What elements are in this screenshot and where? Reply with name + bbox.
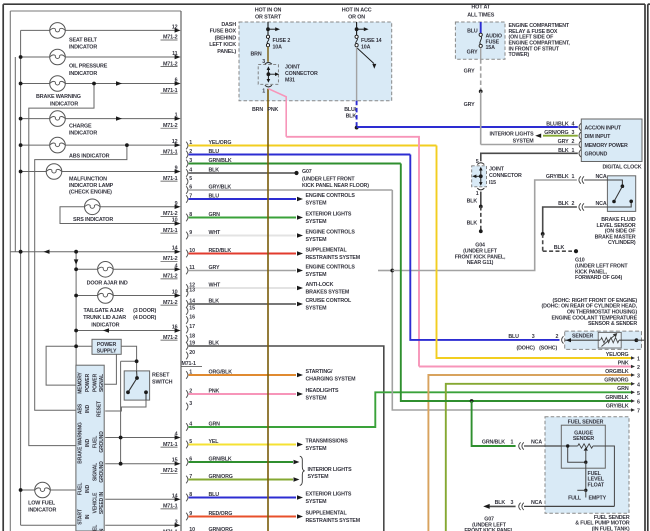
svg-text:BLU: BLU: [467, 29, 478, 35]
svg-text:9: 9: [175, 201, 178, 207]
svg-text:HOT IN ACC: HOT IN ACC: [342, 8, 372, 14]
svg-text:5: 5: [637, 391, 640, 397]
svg-text:FUEL: FUEL: [77, 483, 83, 496]
svg-text:BLK: BLK: [554, 245, 565, 251]
svg-text:IN: IN: [85, 514, 91, 519]
svg-text:HOT AT: HOT AT: [471, 4, 490, 10]
svg-text:NCA: NCA: [531, 439, 542, 445]
svg-text:LOW FUEL: LOW FUEL: [28, 501, 56, 507]
svg-text:INDICATOR: INDICATOR: [69, 131, 97, 137]
svg-text:OIL PRESSURE: OIL PRESSURE: [69, 64, 108, 70]
svg-text:STARTING/: STARTING/: [306, 369, 333, 375]
svg-text:YEL/ORG: YEL/ORG: [606, 352, 629, 358]
svg-text:SYSTEM: SYSTEM: [513, 139, 535, 145]
svg-text:10A: 10A: [273, 45, 283, 51]
svg-text:SYSTEM: SYSTEM: [306, 272, 328, 278]
svg-text:SYSTEM: SYSTEM: [308, 474, 330, 480]
svg-text:TAILGATE AJAR: TAILGATE AJAR: [84, 308, 124, 314]
svg-text:RESET: RESET: [97, 401, 103, 417]
svg-text:SYSTEM: SYSTEM: [306, 219, 328, 225]
svg-text:15A: 15A: [486, 45, 496, 51]
svg-text:SEAT BELT: SEAT BELT: [69, 37, 98, 43]
svg-text:SUPPLEMENTAL: SUPPLEMENTAL: [306, 248, 348, 254]
svg-text:TRUNK LID AJAR: TRUNK LID AJAR: [83, 315, 126, 321]
svg-text:BLU/BLK: BLU/BLK: [546, 122, 569, 128]
svg-text:FLOAT: FLOAT: [588, 482, 605, 488]
svg-text:2: 2: [556, 334, 559, 340]
svg-text:SYSTEM: SYSTEM: [306, 446, 328, 452]
svg-text:TRANSMISSIONS: TRANSMISSIONS: [306, 439, 349, 445]
svg-text:2: 2: [637, 365, 640, 371]
svg-text:HEADLIGHTS: HEADLIGHTS: [306, 388, 340, 394]
svg-text:IND: IND: [85, 484, 91, 493]
svg-text:FUSE 2: FUSE 2: [273, 38, 291, 44]
svg-text:(UNDER LEFT FRONT: (UNDER LEFT FRONT: [302, 177, 355, 183]
svg-text:4: 4: [175, 432, 178, 438]
svg-text:1: 1: [637, 357, 640, 363]
svg-text:BRN: BRN: [252, 107, 263, 113]
svg-text:1: 1: [476, 191, 479, 197]
svg-text:BRAKE WARNING: BRAKE WARNING: [77, 422, 83, 464]
svg-text:FUSE BOX: FUSE BOX: [210, 29, 237, 35]
svg-text:EXTERIOR LIGHTS: EXTERIOR LIGHTS: [306, 492, 352, 498]
svg-text:OR START: OR START: [255, 14, 282, 20]
svg-text:INDICATOR: INDICATOR: [69, 71, 97, 77]
svg-text:4: 4: [572, 122, 575, 128]
svg-text:NCA: NCA: [596, 174, 607, 180]
svg-text:BRN: BRN: [250, 52, 261, 58]
svg-text:1: 1: [175, 113, 178, 119]
svg-text:SYSTEM: SYSTEM: [306, 200, 328, 206]
svg-text:HOT IN ON: HOT IN ON: [255, 8, 282, 14]
svg-text:SYSTEM: SYSTEM: [306, 305, 328, 311]
svg-text:IND: IND: [85, 404, 91, 413]
svg-text:INDICATOR LAMP: INDICATOR LAMP: [69, 183, 114, 189]
svg-text:LEFT KICK: LEFT KICK: [209, 42, 236, 48]
svg-text:9: 9: [175, 166, 178, 172]
svg-text:GRN/ORG: GRN/ORG: [209, 527, 233, 531]
svg-text:ABS INDICATOR: ABS INDICATOR: [69, 153, 110, 159]
svg-text:JOINT: JOINT: [489, 167, 505, 173]
svg-text:FUSE 14: FUSE 14: [361, 38, 382, 44]
svg-text:SENDER: SENDER: [573, 436, 594, 442]
svg-text:GRN/BLK: GRN/BLK: [482, 439, 505, 445]
svg-text:2: 2: [572, 201, 575, 207]
svg-text:EMPTY: EMPTY: [589, 496, 607, 502]
svg-text:(CHECK ENGINE): (CHECK ENGINE): [69, 189, 112, 195]
svg-text:17: 17: [189, 324, 195, 330]
svg-text:SIGNAL: SIGNAL: [99, 374, 105, 392]
svg-text:CYLINDER): CYLINDER): [608, 240, 636, 246]
svg-text:3: 3: [511, 500, 514, 506]
svg-text:IND: IND: [85, 438, 91, 447]
svg-text:FUEL: FUEL: [93, 525, 99, 531]
svg-text:BLK: BLK: [467, 199, 478, 205]
svg-text:13: 13: [189, 287, 195, 293]
svg-text:(4 DOOR): (4 DOOR): [133, 315, 156, 321]
svg-text:(3 DOOR): (3 DOOR): [133, 308, 156, 314]
svg-text:KICK PANEL NEAR FLOOR): KICK PANEL NEAR FLOOR): [302, 183, 369, 189]
svg-text:ACC/ON INPUT: ACC/ON INPUT: [585, 125, 622, 131]
svg-text:TOWER): TOWER): [509, 52, 530, 58]
svg-text:ABS: ABS: [77, 403, 83, 414]
svg-text:RESTRAINTS SYSTEM: RESTRAINTS SYSTEM: [306, 518, 361, 524]
svg-text:GRY: GRY: [467, 49, 478, 55]
svg-text:2: 2: [572, 139, 575, 145]
svg-text:14: 14: [172, 493, 178, 499]
svg-text:GRN: GRN: [617, 386, 629, 392]
svg-text:POWER: POWER: [93, 373, 99, 392]
svg-text:CRUISE CONTROL: CRUISE CONTROL: [306, 298, 352, 304]
svg-text:BRAKES SYSTEM: BRAKES SYSTEM: [306, 289, 350, 295]
svg-text:3: 3: [189, 401, 192, 407]
svg-text:INTERIOR LIGHTS: INTERIOR LIGHTS: [490, 131, 535, 137]
svg-text:RESET: RESET: [152, 373, 170, 379]
svg-text:MALFUNCTION: MALFUNCTION: [69, 176, 107, 182]
svg-text:10A: 10A: [361, 45, 371, 51]
svg-text:DIGITAL CLOCK: DIGITAL CLOCK: [602, 164, 641, 170]
svg-text:18: 18: [189, 333, 195, 339]
svg-text:(BEHIND: (BEHIND: [215, 35, 237, 41]
svg-text:EXTERIOR LIGHTS: EXTERIOR LIGHTS: [306, 212, 352, 218]
svg-text:10: 10: [189, 527, 195, 531]
svg-text:ENGINE COMPARTMENT: ENGINE COMPARTMENT: [509, 23, 570, 29]
svg-text:11: 11: [172, 51, 178, 57]
svg-text:12: 12: [172, 139, 178, 145]
svg-text:CHARGING SYSTEM: CHARGING SYSTEM: [306, 376, 357, 382]
svg-text:MEMORY: MEMORY: [77, 371, 83, 393]
svg-text:SENDER: SENDER: [572, 333, 593, 339]
svg-text:(SOHC): (SOHC): [539, 345, 557, 351]
svg-text:SWITCH: SWITCH: [152, 380, 173, 386]
svg-text:SIGNAL: SIGNAL: [93, 463, 99, 481]
svg-text:FULL: FULL: [568, 496, 582, 502]
svg-text:CONNECTOR: CONNECTOR: [489, 173, 522, 179]
svg-text:6: 6: [175, 78, 178, 84]
svg-text:6: 6: [637, 400, 640, 406]
svg-text:PANEL): PANEL): [217, 49, 236, 55]
svg-text:GRY: GRY: [464, 68, 475, 74]
svg-text:NCA: NCA: [596, 201, 607, 207]
svg-text:1: 1: [572, 174, 575, 180]
svg-text:SENSOR & SENDER: SENSOR & SENDER: [588, 321, 637, 327]
svg-text:SRS INDICATOR: SRS INDICATOR: [73, 217, 113, 223]
svg-text:1: 1: [511, 439, 514, 445]
svg-text:SYSTEM: SYSTEM: [306, 237, 328, 243]
svg-text:POWER: POWER: [85, 373, 91, 392]
svg-text:MEMORY POWER: MEMORY POWER: [585, 143, 629, 149]
svg-text:BLK: BLK: [495, 500, 506, 506]
svg-text:BLU: BLU: [508, 334, 519, 340]
svg-text:FUEL: FUEL: [93, 436, 99, 449]
svg-text:GRY: GRY: [558, 139, 569, 145]
svg-text:G07: G07: [302, 169, 312, 175]
svg-text:16: 16: [172, 325, 178, 331]
svg-text:DOOR AJAR IND: DOOR AJAR IND: [87, 281, 128, 287]
svg-text:5: 5: [189, 176, 192, 182]
svg-text:VEHICLE: VEHICLE: [93, 492, 99, 513]
svg-text:(IN FUEL TANK): (IN FUEL TANK): [592, 527, 630, 531]
svg-text:GRN/ORG: GRN/ORG: [604, 378, 628, 384]
svg-text:SYSTEM: SYSTEM: [306, 395, 328, 401]
svg-text:ENGINE CONTROLS: ENGINE CONTROLS: [306, 230, 356, 236]
svg-text:SPEED IN: SPEED IN: [99, 491, 105, 514]
svg-text:12: 12: [172, 24, 178, 30]
svg-text:CHARGE: CHARGE: [69, 124, 92, 130]
svg-text:SUPPLEMENTAL: SUPPLEMENTAL: [306, 511, 348, 517]
svg-text:(DOHC): (DOHC): [516, 345, 535, 351]
svg-text:BLU/: BLU/: [344, 107, 356, 113]
svg-text:RESTRAINTS SYSTEM: RESTRAINTS SYSTEM: [306, 255, 361, 261]
svg-text:ENGINE CONTROLS: ENGINE CONTROLS: [306, 193, 356, 199]
svg-text:7: 7: [637, 408, 640, 414]
svg-text:PNK: PNK: [268, 107, 279, 113]
svg-text:FUEL SENDER: FUEL SENDER: [568, 419, 604, 425]
svg-text:GRY/BLK: GRY/BLK: [606, 404, 629, 410]
svg-text:INTERIOR LIGHTS: INTERIOR LIGHTS: [308, 467, 353, 473]
svg-text:3: 3: [175, 519, 178, 525]
svg-text:3: 3: [262, 59, 265, 65]
svg-text:SUPPLY: SUPPLY: [97, 349, 117, 355]
svg-text:ORG/BLK: ORG/BLK: [605, 369, 629, 375]
svg-text:10: 10: [172, 290, 178, 296]
svg-text:INDICATOR: INDICATOR: [50, 101, 78, 107]
svg-text:INDICATOR: INDICATOR: [91, 322, 119, 328]
svg-text:DASH: DASH: [221, 22, 236, 28]
svg-text:JOINT: JOINT: [285, 64, 301, 70]
svg-text:GROUND: GROUND: [99, 431, 105, 453]
svg-text:M31: M31: [285, 78, 295, 84]
svg-text:GRN/BLK: GRN/BLK: [605, 395, 628, 401]
svg-text:POWER: POWER: [97, 342, 117, 348]
svg-text:CONNECTOR: CONNECTOR: [285, 71, 318, 77]
svg-text:I15: I15: [489, 180, 496, 186]
svg-text:ENGINE CONTROLS: ENGINE CONTROLS: [306, 265, 356, 271]
svg-text:15: 15: [172, 458, 178, 464]
svg-text:NEAR G11): NEAR G11): [467, 260, 494, 266]
svg-text:BLK: BLK: [467, 221, 478, 227]
svg-text:FORWARD OF G04): FORWARD OF G04): [575, 275, 622, 281]
svg-text:BLK: BLK: [346, 113, 357, 119]
svg-text:GROUND: GROUND: [99, 461, 105, 483]
svg-text:SYSTEM: SYSTEM: [306, 499, 328, 505]
svg-text:15: 15: [189, 305, 195, 311]
svg-text:4: 4: [637, 382, 640, 388]
svg-text:1: 1: [262, 89, 265, 95]
svg-text:INDICATOR: INDICATOR: [69, 45, 97, 51]
svg-text:ANTI-LOCK: ANTI-LOCK: [306, 282, 334, 288]
svg-text:BLK: BLK: [558, 201, 569, 207]
svg-text:GROUND: GROUND: [585, 152, 608, 158]
svg-text:OR ON: OR ON: [348, 14, 365, 20]
svg-text:16: 16: [189, 314, 195, 320]
svg-text:NCA: NCA: [531, 500, 542, 506]
svg-text:INDICATOR: INDICATOR: [28, 508, 56, 514]
svg-text:DIM INPUT: DIM INPUT: [585, 134, 612, 140]
svg-text:BRAKE WARNING: BRAKE WARNING: [36, 94, 81, 100]
svg-text:GRY/BLK: GRY/BLK: [546, 174, 569, 180]
svg-text:4: 4: [175, 263, 178, 269]
svg-text:10: 10: [172, 218, 178, 224]
svg-text:3: 3: [532, 334, 535, 340]
svg-text:14: 14: [172, 246, 178, 252]
svg-text:PNK: PNK: [618, 360, 629, 366]
svg-text:20: 20: [189, 350, 195, 356]
svg-text:START: START: [77, 509, 83, 525]
svg-text:ALL TIMES: ALL TIMES: [467, 12, 495, 18]
svg-text:GRY: GRY: [464, 102, 475, 108]
svg-text:3: 3: [637, 374, 640, 380]
